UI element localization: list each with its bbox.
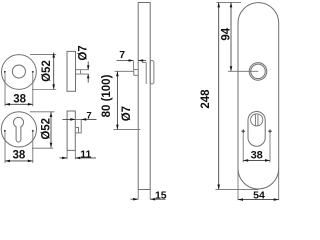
- top rosette left screw dot: [4, 71, 6, 73]
- handle hole inner circle front: [251, 64, 266, 79]
- dim 7 plate: ext line down to pin: [133, 61, 135, 70]
- svg-text:38: 38: [13, 93, 26, 105]
- dim 38 cylinder line: [243, 159, 270, 161]
- dim dia7 pin lower arrow line: [87, 74, 89, 82]
- dim dia7 pin upper arrow line: [87, 62, 89, 70]
- spindle pin bottom line: [76, 73, 89, 75]
- bottom ext line plate front: [216, 189, 259, 191]
- ext line circle top for dia 52: [30, 53, 56, 55]
- dim 11 right arrow line: [75, 157, 96, 159]
- dim 248 vertical line: [218, 3, 220, 190]
- bottom rosette right screw dot: [32, 130, 34, 132]
- svg-text:Ø7: Ø7: [77, 45, 89, 60]
- extension line left from dot down: [4, 73, 6, 106]
- svg-text:15: 15: [155, 189, 167, 201]
- dim dia52 line top rosette: [53, 53, 55, 90]
- svg-text:7: 7: [119, 49, 125, 61]
- bottom side view rosette plate: [67, 111, 75, 150]
- svg-text:Ø52: Ø52: [40, 118, 52, 140]
- security plate side view outline: [138, 3, 150, 190]
- dim 7 stub right arrow line: [81, 118, 96, 120]
- spindle pin side view: [134, 69, 138, 75]
- dim 15 left arrow line: [131, 198, 139, 200]
- spindle pin top line: [76, 69, 89, 71]
- dim 38 line top rosette: [5, 103, 33, 105]
- cylinder stub outline: [75, 119, 81, 132]
- handle hole outer circle front: [249, 63, 267, 81]
- extension line right from dot down: [32, 73, 34, 106]
- ext line right dot down: [32, 132, 34, 163]
- dim 15 right arrow line: [150, 198, 165, 200]
- bottom rosette outer circle: [1, 112, 36, 147]
- svg-text:38: 38: [13, 150, 26, 162]
- ext lines under rect for 11: [66, 150, 68, 159]
- bottom rosette left screw dot: [4, 130, 6, 132]
- ext line circle top dia52 bottom: [30, 111, 55, 113]
- svg-text:Ø52: Ø52: [41, 60, 53, 82]
- spindle pin end cap: [80, 70, 82, 74]
- plate bottom ext lines for 15: [137, 190, 139, 200]
- cylinder key slot left line: [254, 114, 256, 125]
- dim 54 line: [238, 199, 279, 201]
- dim 94 leader to handle circle: [228, 70, 258, 72]
- cylinder cover oval: [248, 112, 265, 147]
- cylinder stub inner step: [75, 127, 78, 132]
- dim 80 (100): bottom ext line: [114, 129, 141, 131]
- svg-text:7: 7: [86, 110, 91, 121]
- front left screw cross: [241, 129, 245, 133]
- top side view rosette plate: [67, 51, 76, 91]
- dim 7 stub left arrow line: [63, 118, 76, 120]
- dim 7 plate: right arrow line: [138, 60, 146, 62]
- dim 80 (100): vertical line with arrows: [116, 71, 118, 129]
- ext line from left cross down: [242, 133, 244, 163]
- cylinder key slot right line: [257, 114, 259, 125]
- svg-text:54: 54: [253, 190, 265, 202]
- top rosette outer circle: [2, 55, 37, 90]
- dim 80 (100): top ext line: [115, 70, 134, 72]
- svg-text:94: 94: [221, 27, 233, 40]
- cylinder core circle: [251, 114, 263, 126]
- ext line left dot down: [4, 132, 6, 163]
- plate inner edge line: [145, 63, 147, 84]
- top ext line plate front: [217, 1, 242, 3]
- security plate front view outline: [238, 3, 279, 189]
- ext line from right cross down: [269, 133, 271, 163]
- top rosette right screw dot: [32, 71, 34, 73]
- svg-text:38: 38: [251, 149, 263, 161]
- ext lines for 54: [237, 169, 239, 201]
- dim 38 line bottom rosette: [5, 160, 33, 162]
- handle hub bump side view: [150, 61, 154, 84]
- front right screw cross: [268, 129, 272, 133]
- svg-text:248: 248: [200, 89, 212, 109]
- plate inner edge top tick: [142, 62, 146, 64]
- svg-text:Ø7: Ø7: [121, 106, 133, 121]
- dim 7 plate: left arrow line: [117, 60, 134, 62]
- ext line circle bottom for dia 52: [32, 89, 56, 91]
- svg-text:80 (100): 80 (100): [101, 74, 113, 117]
- dim dia52 line bottom rosette: [50, 112, 52, 148]
- top rosette handle hole: [12, 65, 25, 78]
- ext line circle bottom dia52 bottom: [32, 147, 53, 149]
- bottom rosette euro profile keyhole: [13, 117, 23, 142]
- dim 11 left arrow line: [60, 157, 68, 159]
- dim 94 vertical line: [230, 3, 232, 72]
- svg-text:11: 11: [80, 148, 91, 160]
